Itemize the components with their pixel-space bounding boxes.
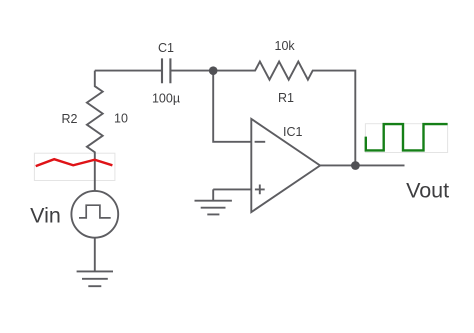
svg-text:Vout: Vout	[406, 179, 449, 203]
svg-text:Vin: Vin	[30, 203, 61, 227]
svg-text:R1: R1	[278, 91, 294, 105]
svg-text:C1: C1	[158, 41, 174, 55]
svg-text:R2: R2	[62, 112, 78, 126]
svg-text:10: 10	[114, 112, 128, 126]
svg-text:10k: 10k	[275, 39, 296, 53]
svg-text:IC1: IC1	[283, 125, 303, 139]
svg-text:100µ: 100µ	[152, 91, 180, 105]
